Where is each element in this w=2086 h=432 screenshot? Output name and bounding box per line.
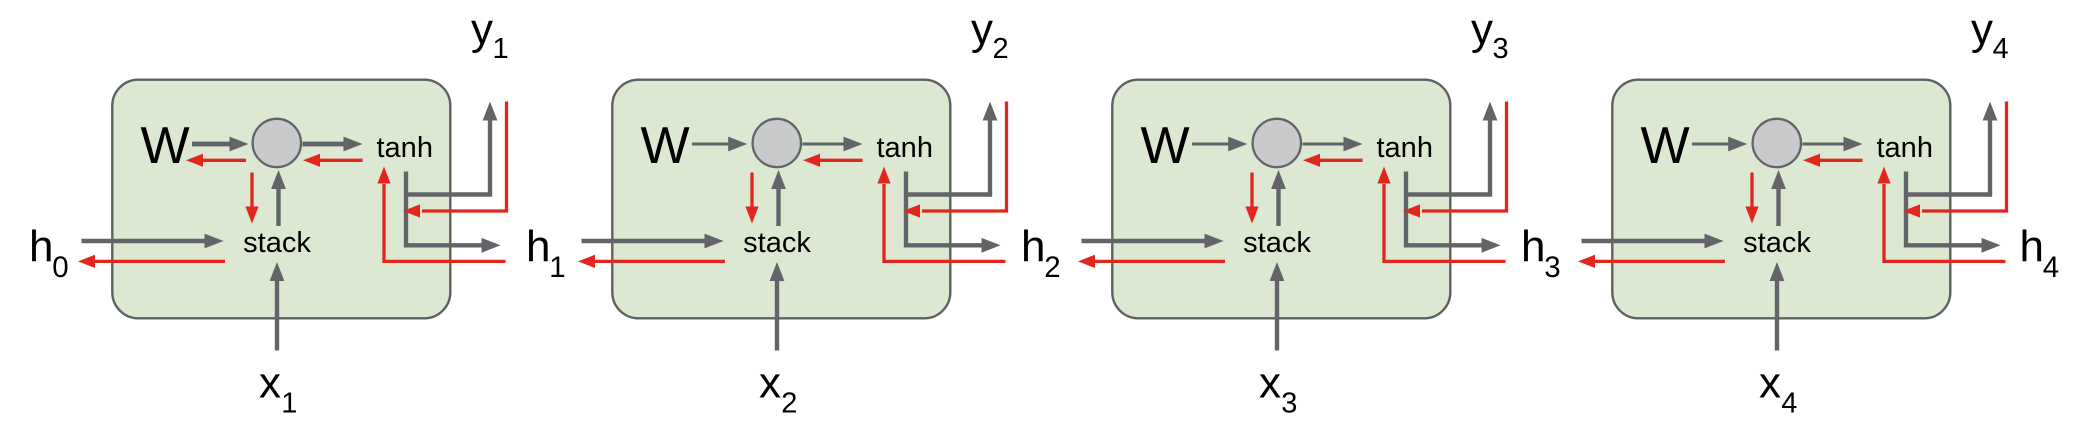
gray forward arrow W to node (cell 2) [692, 143, 731, 146]
svg-text:y1: y1 [471, 5, 509, 65]
svg-text:h3: h3 [1521, 222, 1561, 284]
svg-text:W: W [1141, 117, 1190, 175]
svg-text:y4: y4 [1971, 5, 2009, 65]
red backward arrow from y4 into tanh trunk (cell 4) [1922, 102, 2007, 212]
red backward arrow from y2 into tanh trunk (cell 2) [922, 102, 1007, 212]
gray forward arrow h2 into stack (cell 3) [1082, 239, 1208, 243]
red gradient arrow down from node (cell 1) [250, 173, 253, 210]
red gradient arrow down from node (cell 3) [1250, 173, 1253, 210]
gray forward arrow node to tanh (cell 2) [803, 143, 847, 146]
svg-text:y3: y3 [1471, 5, 1509, 65]
svg-text:W: W [1641, 117, 1690, 175]
gray trunk from tanh with arrow out to h4 (cell 4) [1906, 172, 1984, 246]
red backward arrow tanh to node (cell 4) [1818, 159, 1863, 162]
matmul node circle (cell 2) [753, 119, 801, 167]
gray forward arrow node to tanh (cell 3) [1303, 143, 1347, 146]
svg-text:h4: h4 [2020, 222, 2060, 284]
RNN cell 4 box [1612, 80, 1950, 319]
matmul node circle (cell 3) [1253, 119, 1301, 167]
red backward arrow from y3 into tanh trunk (cell 3) [1422, 102, 1507, 212]
svg-text:stack: stack [243, 227, 311, 259]
red backward arrow out to h1 (cell 2) [593, 260, 726, 263]
red backward arrow tanh to node (cell 2) [818, 159, 863, 162]
gray trunk from tanh with arrow out to h1 (cell 1) [406, 172, 484, 246]
gray forward arrow node to tanh (cell 4) [1803, 143, 1847, 146]
gray arrow stack to node (cell 1) [276, 186, 280, 226]
svg-text:x3: x3 [1259, 359, 1297, 420]
gray arrow stack to node (cell 2) [776, 186, 780, 226]
gray forward arrow h1 into stack (cell 2) [582, 239, 708, 243]
red backward arrow out to h2 (cell 3) [1093, 260, 1226, 263]
matmul node circle (cell 4) [1753, 119, 1801, 167]
svg-text:h0: h0 [29, 222, 69, 284]
gray branch arrow up to y2 (cell 2) [906, 118, 990, 195]
svg-text:stack: stack [743, 227, 811, 259]
svg-text:W: W [641, 117, 690, 175]
gray branch arrow up to y3 (cell 3) [1406, 118, 1490, 195]
red backward arrow from h3 up into tanh (cell 3) [1384, 184, 1506, 261]
red backward arrow from h1 up into tanh (cell 1) [384, 184, 506, 261]
svg-text:x1: x1 [259, 359, 297, 420]
red backward arrow from h4 up into tanh (cell 4) [1884, 184, 2006, 261]
svg-text:stack: stack [1743, 227, 1811, 259]
svg-text:tanh: tanh [1377, 132, 1433, 164]
svg-text:x4: x4 [1759, 359, 1797, 420]
red backward arrow out to h0 (cell 1) [93, 260, 226, 263]
red gradient arrow down from node (cell 4) [1750, 173, 1753, 210]
gray forward arrow x3 into stack (cell 3) [1275, 278, 1279, 350]
gray trunk from tanh with arrow out to h3 (cell 3) [1406, 172, 1484, 246]
svg-text:h2: h2 [1021, 222, 1061, 284]
RNN cell 2 box [612, 80, 950, 319]
gray forward arrow x4 into stack (cell 4) [1775, 278, 1779, 350]
gray forward arrow node to tanh (cell 1) [303, 142, 347, 147]
svg-text:x2: x2 [759, 359, 797, 420]
gray forward arrow x2 into stack (cell 2) [775, 278, 779, 350]
red backward arrow out to h3 (cell 4) [1593, 260, 1726, 263]
svg-text:h1: h1 [526, 222, 566, 284]
gray arrow stack to node (cell 4) [1776, 186, 1780, 226]
red backward arrow tanh to node (cell 3) [1318, 159, 1363, 162]
red gradient arrow down from node (cell 2) [750, 173, 753, 210]
svg-text:W: W [141, 117, 190, 175]
svg-text:tanh: tanh [377, 132, 433, 164]
RNN cell 3 box [1112, 80, 1450, 319]
red backward arrow from h2 up into tanh (cell 2) [884, 184, 1006, 261]
red backward arrow from y1 into tanh trunk (cell 1) [422, 102, 507, 212]
gray forward arrow W to node (cell 3) [1192, 143, 1231, 146]
red backward arrow node to W (cell 1) [200, 159, 246, 162]
gray forward arrow h3 into stack (cell 4) [1582, 239, 1708, 243]
gray branch arrow up to y4 (cell 4) [1906, 118, 1990, 195]
red backward arrow tanh to node (cell 1) [317, 159, 362, 162]
matmul node circle (cell 1) [253, 119, 301, 167]
RNN cell 1 box [112, 80, 450, 319]
gray forward arrow W to node (cell 1) [192, 142, 232, 147]
gray branch arrow up to y1 (cell 1) [406, 118, 490, 195]
svg-text:tanh: tanh [877, 132, 933, 164]
gray forward arrow x1 into stack (cell 1) [275, 278, 279, 350]
svg-text:stack: stack [1243, 227, 1311, 259]
gray forward arrow W to node (cell 4) [1692, 143, 1731, 146]
svg-text:tanh: tanh [1877, 132, 1933, 164]
gray arrow stack to node (cell 3) [1276, 186, 1280, 226]
gray forward arrow h0 into stack (cell 1) [82, 239, 208, 243]
gray trunk from tanh with arrow out to h2 (cell 2) [906, 172, 984, 246]
svg-text:y2: y2 [971, 5, 1009, 65]
